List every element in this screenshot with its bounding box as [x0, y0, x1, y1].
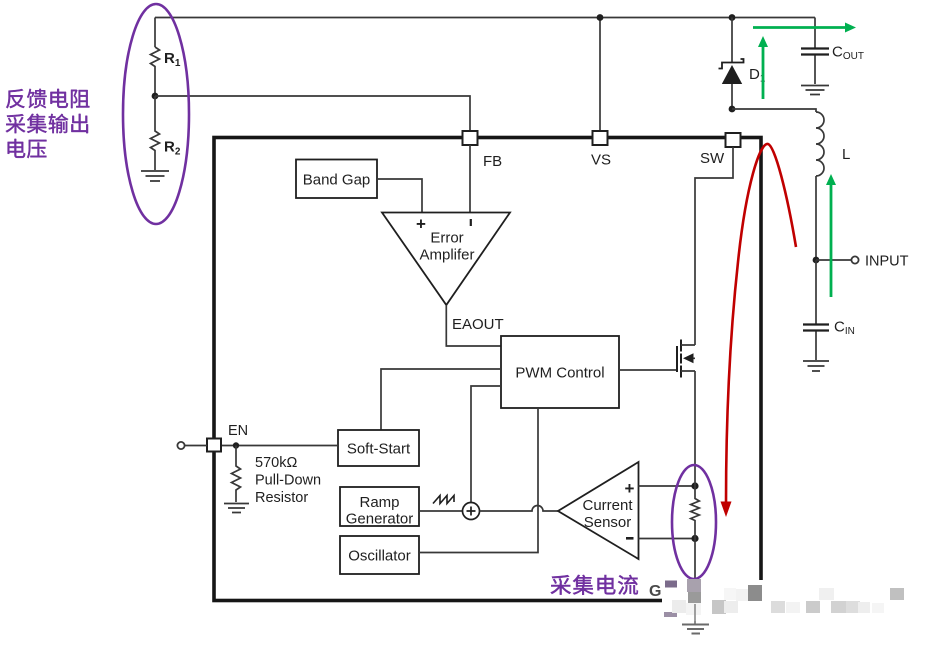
- ellipse annotation: feedback divider (purple): [123, 4, 189, 224]
- wire: sense resistor to GND pin: [694, 539, 696, 625]
- wire: current sensor + input to sense resistor top: [639, 485, 696, 487]
- wire: MOSFET source to sense resistor: [694, 371, 696, 486]
- red arrow: switch current path: [726, 144, 796, 503]
- svg-text:Band Gap: Band Gap: [303, 172, 371, 189]
- svg-text:Resistor: Resistor: [255, 490, 308, 506]
- capacitor COUT: [814, 18, 816, 48]
- resistor R2: [151, 96, 160, 170]
- blur patch backing (censored watermark area): [662, 580, 939, 621]
- pin FB: [463, 131, 478, 145]
- block: Oscillator: [340, 536, 419, 574]
- svg-text:Pull-Down: Pull-Down: [255, 473, 321, 489]
- node: sense resistor bottom: [691, 535, 698, 542]
- inductor L: [816, 112, 824, 176]
- wire: summing node to current sensor (with hop): [480, 506, 559, 511]
- wire: top output rail: [155, 17, 815, 19]
- wire: band gap to error amp + input: [377, 179, 422, 212]
- svg-text:Amplifer: Amplifer: [419, 247, 474, 264]
- block: Band Gap: [296, 160, 377, 199]
- pin SW: [726, 133, 741, 147]
- wire: divider junction to FB column: [155, 96, 470, 131]
- ground: below COUT: [801, 86, 829, 95]
- svg-text:L: L: [842, 146, 850, 163]
- transistor Q1 (N-MOSFET): [619, 369, 677, 371]
- op-amp U1: Error Amplifer: [382, 213, 510, 306]
- green arrow: output current (top right): [753, 26, 845, 29]
- svg-text:SW: SW: [700, 150, 725, 167]
- diode D1 (schottky, cathode up): [731, 18, 733, 63]
- svg-text:VS: VS: [591, 152, 611, 169]
- wire: oscillator to PWM control: [419, 408, 538, 553]
- terminal: EN input: [185, 445, 207, 447]
- wire: GND stub below blur: [694, 604, 696, 624]
- resistor: current sense: [691, 486, 700, 539]
- ellipse annotation: sense resistor (purple): [672, 465, 716, 579]
- block: Soft-Start: [338, 430, 419, 466]
- wire: EN node to soft-start: [221, 445, 338, 447]
- svg-text:+: +: [416, 215, 426, 234]
- node: diode anode / SW-inductor junction: [729, 106, 736, 113]
- svg-text:EAOUT: EAOUT: [452, 316, 504, 333]
- node: rail/VS junction: [597, 14, 604, 21]
- svg-text:+: +: [625, 479, 635, 498]
- svg-text:Generator: Generator: [346, 511, 414, 528]
- resistor R1: [151, 47, 160, 96]
- ground: below CIN: [803, 361, 829, 371]
- wire: EAOUT to PWM control: [446, 305, 501, 346]
- wire: FB pin to error amp inverting input: [469, 145, 471, 212]
- node: INPUT junction: [813, 257, 820, 264]
- IC block outline: [214, 138, 761, 601]
- pin VS: [593, 131, 608, 145]
- blur mosaic patches: [665, 581, 677, 588]
- node: feedback divider junction: [152, 93, 159, 100]
- node: EN junction: [233, 442, 239, 448]
- annotation text: 反馈电阻 采集输出 电压: [6, 89, 25, 108]
- wire: soft-start to PWM control: [381, 369, 501, 430]
- wire: SW pin to MOSFET drain: [695, 147, 733, 345]
- svg-text:G: G: [649, 583, 661, 600]
- svg-text:Sensor: Sensor: [584, 514, 632, 531]
- capacitor CIN: [815, 260, 817, 324]
- wire: junction to inductor top: [732, 109, 816, 112]
- block: PWM Control: [501, 336, 619, 408]
- wire: PWM control to summing node: [471, 386, 501, 502]
- wire: inductor to INPUT node: [815, 176, 817, 260]
- pin EN: [207, 439, 221, 452]
- annotation text: 采集电流: [551, 575, 571, 595]
- svg-text:Current: Current: [582, 497, 633, 514]
- node: sense resistor top: [691, 482, 698, 489]
- ground: below 570k resistor: [224, 504, 249, 513]
- node: rail/diode junction: [729, 14, 736, 21]
- wire: VS pin to rail: [599, 18, 601, 132]
- resistor: 570k pull-down: [232, 446, 241, 503]
- wire: ramp generator to summing node: [419, 510, 463, 512]
- svg-text:Oscillator: Oscillator: [348, 548, 411, 565]
- op-amp: Current Sensor: [558, 462, 639, 559]
- block: Ramp Generator: [340, 487, 419, 526]
- wire: current sensor - input to sense resistor bottom: [639, 538, 696, 540]
- svg-text:Ramp: Ramp: [359, 494, 399, 511]
- svg-text:PWM Control: PWM Control: [515, 365, 604, 382]
- svg-text:INPUT: INPUT: [865, 254, 909, 270]
- terminal: INPUT: [816, 259, 851, 261]
- node: summing junction: [463, 503, 480, 520]
- svg-text:570kΩ: 570kΩ: [255, 455, 297, 471]
- green arrow: inductor current (up): [830, 184, 833, 297]
- ground: GND pin ground symbol: [682, 625, 709, 634]
- svg-text:Soft-Start: Soft-Start: [347, 441, 411, 458]
- svg-text:FB: FB: [483, 153, 502, 170]
- ground: below R2: [141, 171, 169, 181]
- icon: sawtooth waveform: [433, 496, 454, 504]
- green arrow: through diode (up): [762, 46, 765, 99]
- svg-text:EN: EN: [228, 423, 248, 439]
- wire: R1 top to rail: [154, 18, 156, 48]
- svg-text:Error: Error: [430, 230, 463, 247]
